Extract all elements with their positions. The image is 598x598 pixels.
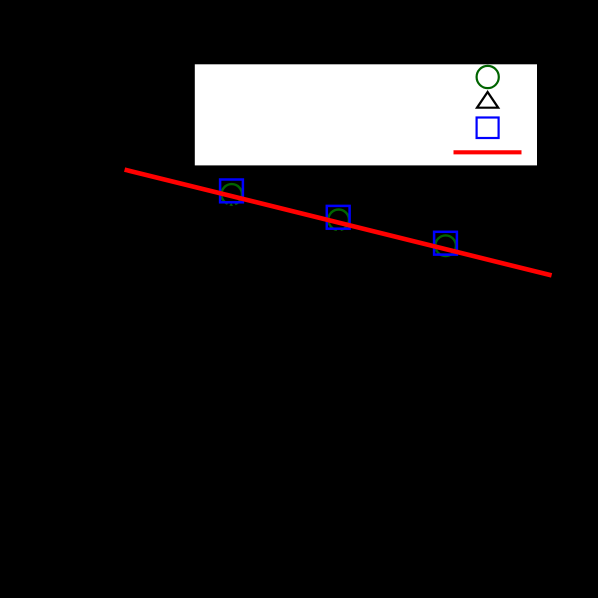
data blue square 1 <box>220 180 243 203</box>
red fit line <box>125 170 552 276</box>
legend box <box>195 64 537 165</box>
data blue square 2 <box>327 206 350 229</box>
legend red line sample <box>454 150 522 154</box>
legend blue square sample <box>477 118 499 139</box>
data black triangle 1 <box>220 201 242 217</box>
legend green circle sample <box>477 66 499 88</box>
data blue square 3 <box>434 232 457 255</box>
data black triangle 2 <box>328 230 350 246</box>
data green circle 2 <box>328 210 349 231</box>
data green circle 1 <box>221 184 242 205</box>
legend black triangle sample <box>477 92 498 108</box>
data green circle 3 <box>435 235 456 256</box>
data black triangle 3 <box>435 260 457 276</box>
